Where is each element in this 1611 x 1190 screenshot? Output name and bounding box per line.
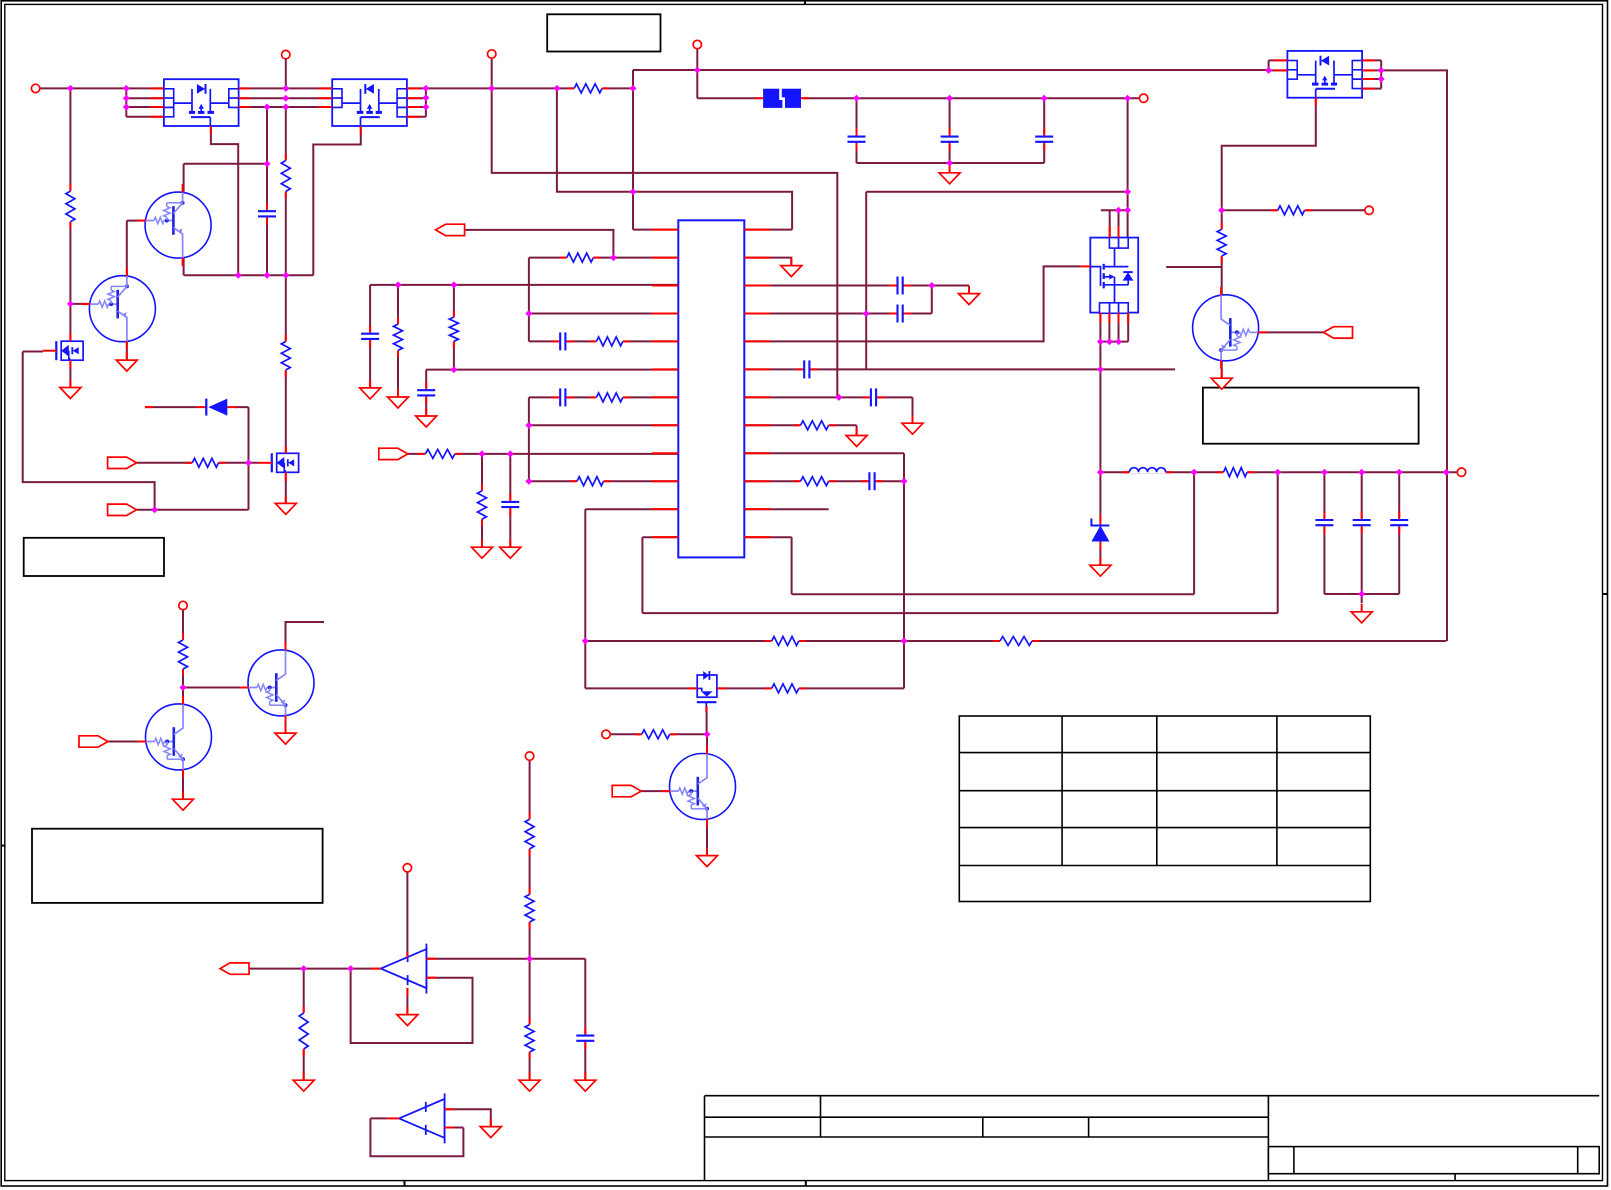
wire [184,163,267,165]
junction [264,160,271,167]
junction [235,272,242,279]
wire [303,969,305,1080]
wire [903,453,905,688]
wire [369,285,371,388]
junction [1358,469,1365,476]
ground [360,380,381,399]
wire [126,97,164,99]
capacitor C13 [940,128,960,150]
wire [1380,60,1382,88]
wire [791,537,793,594]
wire [931,286,933,314]
junction [694,67,701,74]
wire [1127,313,1129,342]
wire [125,88,127,116]
wire [183,258,185,275]
port F7 [612,785,641,796]
wire [640,790,671,792]
resistor R22 [1216,222,1228,263]
capacitor C7 [861,471,883,491]
wire [633,69,1269,71]
wire [610,733,707,735]
capacitor C9 [360,325,380,347]
junction [488,85,495,92]
junction [450,281,457,288]
wire [248,407,250,510]
wire [445,1109,491,1126]
wire [1166,266,1222,268]
ground [416,408,437,427]
wire [463,230,613,258]
wire [1381,70,1447,641]
junction [863,310,870,317]
wire [557,88,792,229]
junction [704,731,711,738]
resistor R7 [185,457,225,469]
junction [1115,338,1122,345]
wire [642,536,678,538]
capacitor C11 [500,494,520,516]
wire [968,286,970,294]
wire [1099,472,1101,522]
resistor R4 [589,391,629,403]
junction [901,638,908,645]
wire [285,716,287,733]
junction [525,478,532,485]
port P11 [403,864,411,872]
junction [1041,95,1048,102]
ground [275,725,296,744]
transistor Q6 [1193,287,1267,369]
wire [184,274,314,276]
wire [249,968,381,970]
port RST [436,224,465,235]
shunt regulator U3 [399,1093,445,1143]
wire [137,462,259,464]
ground [275,495,296,514]
wire [1118,313,1120,342]
junction [395,281,402,288]
resistor R14 [1217,466,1255,478]
junction [1321,469,1328,476]
wire [266,107,268,275]
wire [126,221,128,277]
junction [479,450,486,457]
port F3 [379,448,408,459]
wire [641,537,643,613]
ground [500,539,521,558]
wire [1269,59,1288,61]
wire [145,406,196,408]
junction [526,955,533,962]
wire [744,452,904,454]
junction [1274,469,1281,476]
junction [525,422,532,429]
wire [285,107,287,453]
junction [123,95,130,102]
junction [450,366,457,373]
ground [939,165,960,184]
resistor R9 [794,475,836,487]
wire [529,760,531,1080]
wire [1222,209,1365,211]
wire [585,640,1446,642]
wire [744,285,969,287]
wire [370,1117,386,1119]
wire [1323,472,1325,594]
mosfet M5 [43,341,83,360]
ground [1351,604,1372,623]
junction [507,450,514,457]
resistor R3 [589,335,629,347]
wire [370,1118,463,1156]
port P7 [1457,468,1465,476]
port F1 [1324,327,1353,338]
wire [585,687,697,689]
wire [856,425,858,435]
wire [481,454,483,547]
wire [408,97,426,99]
wire [492,58,838,397]
capacitor C8 [257,203,277,225]
wire [1362,78,1381,80]
wire [1324,593,1399,595]
wire [792,593,1195,595]
wire [744,266,1080,341]
port P8 [179,601,187,609]
wire [529,257,678,259]
junction [946,160,953,167]
wire [697,97,762,99]
wire [1099,342,1101,473]
junction [264,104,271,111]
shunt regulator U2 [381,944,427,994]
wire [239,97,333,99]
wire [1108,313,1110,342]
ground [959,286,980,305]
wire [69,361,71,387]
ground [472,539,493,558]
resistor R11 [993,635,1039,647]
wire [1100,471,1457,473]
wire [1362,69,1381,71]
wire [744,368,1175,370]
resistor R16 [64,184,76,229]
junction [630,188,637,195]
junction [1124,188,1131,195]
wire [453,285,455,370]
wire [949,98,951,163]
port F4 [108,457,137,468]
junction [1124,207,1131,214]
capacitor C15 [1314,512,1334,534]
text box B1 [547,14,660,51]
wire [239,106,333,108]
wire [425,88,427,116]
junction [1106,338,1113,345]
capacitor C12 [847,128,867,150]
wire [1099,313,1101,342]
capacitor C1 [552,331,574,351]
junction [1097,366,1104,373]
wire [529,480,678,482]
wire [40,87,164,89]
wire [126,341,128,359]
wire [406,872,408,957]
wire [1043,98,1045,163]
junction [264,272,271,279]
resistor R24 [524,812,536,856]
junction [245,459,252,466]
wire [1362,59,1381,61]
junction [1097,338,1104,345]
resistor R18 [280,335,292,377]
capacitor C14 [1034,128,1054,150]
wire [23,352,155,510]
resistor R27 [298,1006,310,1056]
junction [1115,207,1122,214]
port P4 [693,40,701,48]
wire [70,303,90,305]
port P1 [31,84,39,92]
wire [286,622,325,650]
capacitor C10 [416,382,436,404]
wire [1268,60,1270,70]
wire [239,87,333,89]
table [959,716,1370,902]
ground [173,791,194,810]
wire [182,688,184,705]
port P6 [1365,206,1373,214]
wire [1277,472,1279,613]
wire [1361,594,1363,603]
wire [1259,331,1324,333]
wire [406,988,408,1014]
port P9 [525,752,533,760]
wire [856,98,858,163]
resistor R25 [524,887,536,929]
wire [1362,88,1381,90]
wire [642,612,1277,614]
wire [1109,210,1111,237]
text box B3 [32,829,323,903]
diode D1 [145,398,237,417]
junction [282,104,289,111]
capacitor C3 [889,276,911,296]
port P10 [602,730,610,738]
wire [912,397,914,423]
junction [928,282,935,289]
transistor Q3 [240,642,314,724]
junction [553,85,560,92]
junction [123,104,130,111]
wire [1221,360,1223,378]
wire [584,959,586,1080]
port F2 [220,963,249,974]
mosfet M2 pin stubs [318,88,420,134]
mosfet M7 [688,671,726,712]
text box B2 [24,538,164,576]
wire [426,958,585,960]
wire [706,818,708,855]
junction [347,965,354,972]
wire [313,127,361,276]
resistor R19 [448,310,460,348]
wire [857,162,1045,164]
wire [801,97,1139,99]
fuse F1 [755,87,809,110]
wire [717,687,904,689]
resistor R12 [765,682,806,694]
wire [126,116,164,118]
wire [585,508,678,510]
junction [1358,591,1365,598]
port F5 [108,504,137,515]
resistor R5 [570,475,611,487]
wire [706,706,708,734]
wire [1118,210,1120,237]
wire [528,397,530,481]
capacitor C16 [1352,512,1372,534]
junction [1191,469,1198,476]
wire [1099,545,1101,566]
port P3 [488,50,496,58]
junction [1265,67,1272,74]
ground [902,415,923,434]
wire [137,509,249,511]
resistor R21 [476,484,488,526]
wire [865,314,867,370]
wire [1101,209,1128,211]
resistor R15 [1271,204,1312,216]
ground [519,1072,540,1091]
transistor Q2 [81,268,155,350]
wire [744,396,912,398]
capacitor C6 [863,387,885,407]
capacitor C5 [796,359,818,379]
ground [293,1072,314,1091]
wire [351,969,473,1043]
port P5 [1139,94,1147,102]
ground [1090,557,1111,576]
transistor Q4 [138,696,212,778]
wire [182,610,184,688]
junction [123,85,130,92]
wire [584,509,586,688]
mosfet M4 package [1080,238,1138,314]
wire [126,106,164,108]
junction [1443,469,1450,476]
ground [781,258,802,277]
junction [835,394,842,401]
resistor R20 [392,317,404,357]
junction [282,272,289,279]
wire [529,396,678,398]
capacitor C17 [1389,512,1409,534]
mosfet M1 pin stubs [150,88,250,134]
wire [744,424,856,426]
ground [397,1007,418,1026]
ground [60,380,81,399]
inductor L1 [1122,462,1172,473]
wire [445,1127,464,1129]
wire [1269,69,1288,71]
mosfet M3 pin stubs [1274,60,1375,106]
junction [151,506,158,513]
junction [1124,95,1131,102]
mosfet M6 [258,453,298,472]
wire [285,474,287,504]
wire [632,70,634,230]
ground [116,352,137,371]
junction [282,85,289,92]
junction [901,478,908,485]
mosfet M1 package [164,79,239,126]
wire [397,285,399,397]
wire [127,220,146,222]
junction [300,965,307,972]
mosfet M6 stubs [285,446,287,481]
wire [744,480,904,482]
junction [946,95,953,102]
mosfet M5 stubs [69,333,71,369]
junction [853,95,860,102]
wire [425,370,427,416]
junction [422,94,429,101]
wire [408,116,426,118]
wire [866,191,1127,193]
wire [744,258,791,266]
wire [633,229,678,231]
junction [630,85,637,92]
wire [696,49,698,98]
port P2 [282,50,290,58]
junction [1378,67,1385,74]
resistor R10 [765,635,806,647]
U2 stubs [371,952,436,996]
ground [575,1072,596,1091]
wire [408,106,426,108]
wire [706,734,708,752]
mosfet M2 package [332,79,407,126]
port F6 [79,736,108,747]
wire [183,164,185,193]
wire [211,126,238,275]
junction [1378,76,1385,83]
junction [67,85,74,92]
wire [744,508,828,510]
wire [108,741,147,743]
capacitor C4 [889,304,911,324]
IC U1 pins [652,230,771,537]
junction [422,85,429,92]
mosfet M4 pin stubs [1100,226,1128,323]
wire [529,424,678,426]
junction [1097,469,1104,476]
wire [285,59,287,89]
mosfet M3 package [1287,51,1362,98]
ground [388,389,409,408]
junction [610,254,617,261]
junction [525,310,532,317]
wire [528,258,530,342]
wire [529,313,678,315]
wire [1361,472,1363,594]
junction [422,104,429,111]
junction [1218,207,1225,214]
wire [1127,98,1129,210]
wire [426,369,678,371]
